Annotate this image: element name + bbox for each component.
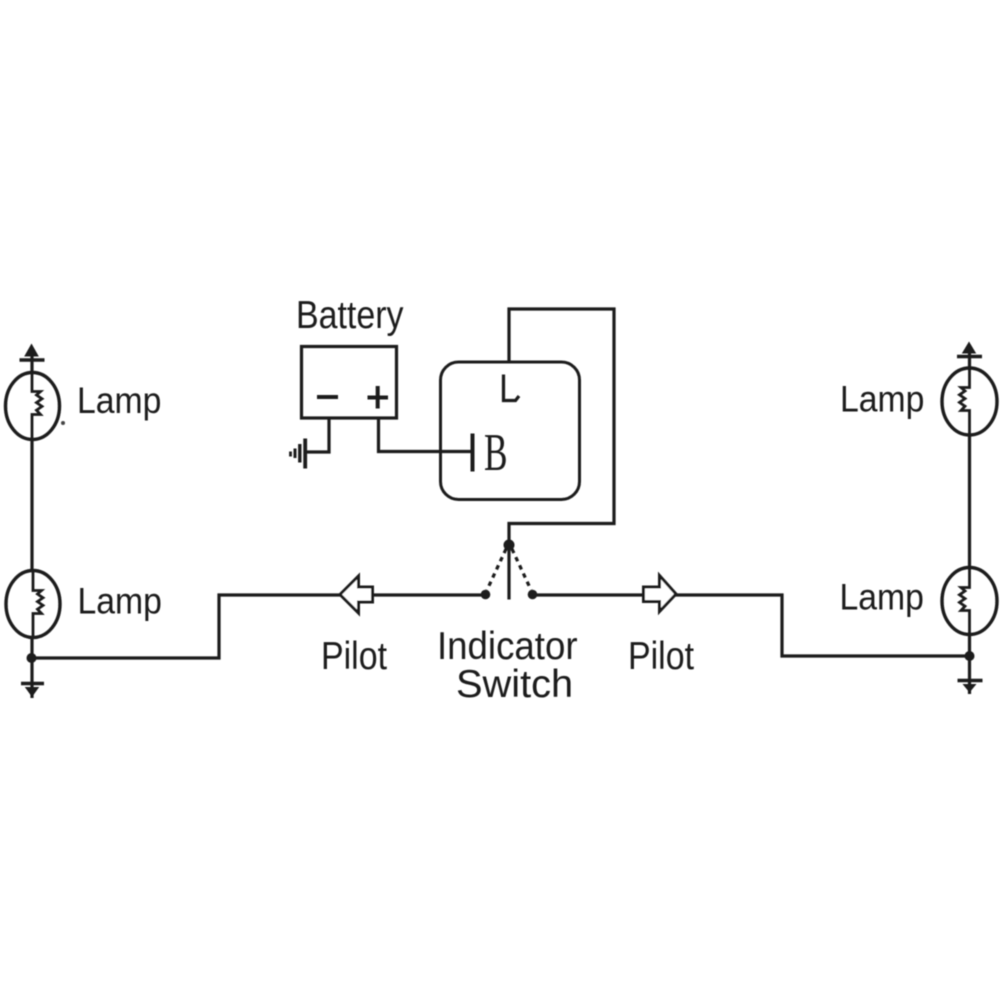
svg-text:Pilot: Pilot xyxy=(321,634,387,678)
svg-text:Lamp: Lamp xyxy=(840,576,924,618)
svg-text:Switch: Switch xyxy=(456,662,573,706)
svg-text:Lamp: Lamp xyxy=(78,580,162,622)
svg-text:Pilot: Pilot xyxy=(628,634,694,678)
svg-text:Battery: Battery xyxy=(296,293,404,337)
svg-text:Lamp: Lamp xyxy=(77,379,161,421)
svg-text:Lamp: Lamp xyxy=(840,378,924,420)
svg-text:B: B xyxy=(484,423,508,482)
